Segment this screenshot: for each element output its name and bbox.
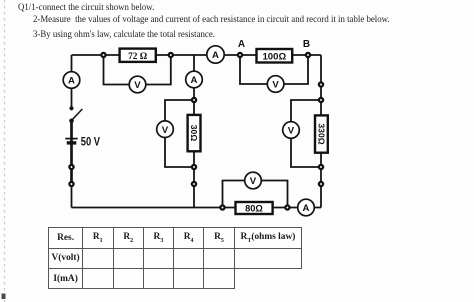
junction right of R1 [169,53,173,57]
svg-text:A: A [68,76,75,87]
svg-text:B: B [303,39,310,50]
svg-text:V: V [162,125,169,136]
voltmeter V5 across R5 [245,172,262,189]
switch S1 upper contact dot [69,106,73,110]
junction right of R5 [285,205,289,209]
junction left of R1 [101,53,105,57]
instruction line 2 [33,14,390,25]
battery B1 long plate [65,138,77,140]
wire voltmeter loop around R1 72ohm [104,55,171,85]
node B junction [306,53,310,57]
instruction line 3 [33,29,215,40]
junction right rail low [319,182,323,186]
wire voltmeter loop around R5 80ohm [223,181,288,208]
svg-text:80Ω: 80Ω [245,204,263,214]
resistor R4 330ohm [315,115,328,152]
ammeter A4 bottom rail [298,199,315,216]
ammeter A1 left branch [63,72,80,89]
svg-text:A: A [238,39,245,50]
svg-text:A: A [191,75,198,86]
svg-text:50 V: 50 V [81,136,101,149]
svg-text:V: V [272,80,279,91]
wire top rail [72,54,322,56]
wire voltmeter loop around R3 30ohm [165,100,194,167]
switch S1 blade [71,109,82,121]
instruction line 1 [18,2,154,13]
junction right rail loop-top [319,98,323,102]
wire voltmeter loop around R2 100ohm [240,55,308,84]
battery B1 50V thick lead [70,120,73,183]
junction right rail loop-bottom [319,165,323,169]
resistor R5 80ohm [236,202,273,214]
junction left of R5 [220,205,224,209]
junction middle branch top [192,98,196,102]
svg-text:V: V [288,126,295,137]
voltmeter V2 across R2 [267,76,284,93]
svg-text:30Ω: 30Ω [189,125,199,142]
resistor R2 100ohm [257,49,293,63]
svg-text:72 Ω: 72 Ω [128,52,148,62]
junction middle branch low [192,182,196,186]
wire right vertical rail [320,55,322,208]
junction left rail lower [69,182,73,186]
ammeter A3 middle branch [186,71,203,88]
wire bottom rail [72,207,322,209]
node A junction [238,53,242,57]
resistor R3 30ohm [188,115,201,151]
svg-text:A: A [212,50,219,61]
resistor R1 72ohm [120,49,156,62]
voltmeter V3 across R3 [157,121,174,138]
voltmeter V1 across R1 [129,76,146,93]
wire voltmeter loop around R4 330ohm [291,100,321,167]
measurement table [48,227,302,289]
junction middle branch mid [192,165,196,169]
junction right rail v-top [319,82,323,86]
wire left vertical upper [71,55,73,109]
svg-text:A: A [303,203,310,214]
voltmeter V4 across R4 [283,122,300,139]
svg-text:100Ω: 100Ω [262,51,286,62]
switch S1 lower contact dot [69,119,74,124]
wire left vertical lower [71,120,73,208]
svg-text:V: V [134,80,141,91]
svg-text:330Ω: 330Ω [316,123,326,144]
svg-text:V: V [250,176,257,187]
junction left rail upper [69,165,73,169]
battery B1 short thick plate [67,141,77,144]
ammeter A2 top rail [207,46,224,63]
wire middle branch vertical [193,55,195,208]
